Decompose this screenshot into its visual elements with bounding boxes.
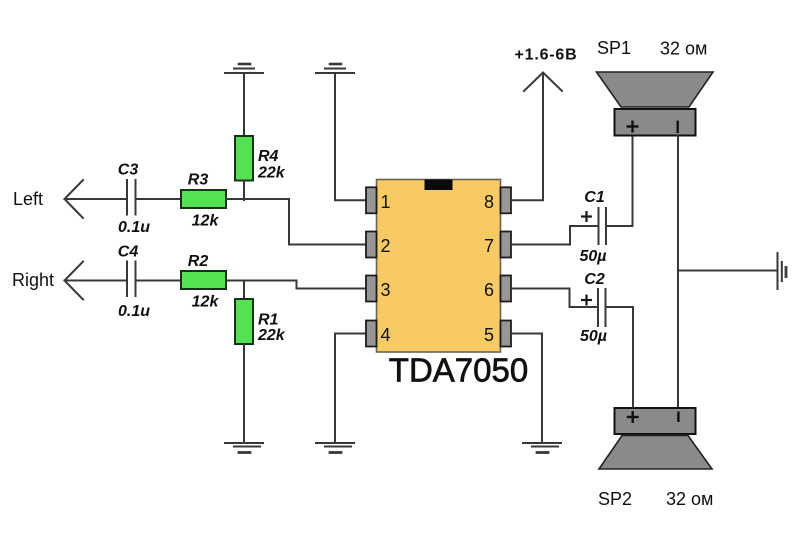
wire ground to R4 bbox=[243, 74, 245, 136]
svg-text:32 ом: 32 ом bbox=[666, 489, 713, 509]
ground right (sideways) bbox=[778, 253, 787, 289]
svg-text:R1: R1 bbox=[258, 312, 279, 329]
wire top-middle ground to pin 1 bbox=[335, 74, 366, 200]
wire Right line junction to R1 bbox=[243, 281, 245, 300]
svg-text:50µ: 50µ bbox=[580, 328, 607, 345]
svg-text:4: 4 bbox=[381, 325, 391, 345]
node Right input connector arrow bbox=[65, 262, 84, 300]
svg-text:12k: 12k bbox=[192, 213, 220, 230]
svg-text:C3: C3 bbox=[118, 162, 139, 179]
pin 1 pad bbox=[366, 187, 377, 213]
capacitor C4 bbox=[127, 262, 136, 297]
svg-text:22k: 22k bbox=[257, 165, 286, 182]
ground top-middle bbox=[316, 64, 354, 73]
SP2 plus terminal mark bbox=[627, 411, 639, 423]
pin 5 pad bbox=[501, 321, 512, 347]
polarity + (C2) bbox=[581, 295, 592, 306]
ground bottom-left (R1) bbox=[225, 443, 263, 453]
svg-text:+1.6-6В: +1.6-6В bbox=[515, 47, 578, 64]
speaker SP2 magnet bbox=[615, 408, 696, 434]
wire pin 6 to C2 bbox=[511, 289, 597, 308]
wire C3 to R3 bbox=[136, 198, 181, 200]
wire Left input to C3 bbox=[65, 198, 127, 200]
pin 6 pad bbox=[501, 276, 512, 302]
svg-text:8: 8 bbox=[484, 192, 494, 212]
pin 4 pad bbox=[366, 321, 377, 347]
speaker SP1 cone bbox=[597, 72, 714, 107]
IC notch mark bbox=[425, 180, 453, 191]
speaker SP2 cone bbox=[599, 436, 712, 470]
resistor R4 bbox=[235, 136, 253, 181]
node Left input connector arrow bbox=[65, 180, 84, 218]
wire pin 7 to C1 bbox=[511, 226, 598, 245]
svg-text:C1: C1 bbox=[584, 189, 605, 206]
wire SP1 minus to SP2 minus (shared) bbox=[677, 136, 679, 408]
svg-text:R2: R2 bbox=[188, 253, 209, 270]
svg-text:TDA7050: TDA7050 bbox=[389, 352, 528, 389]
supply arrow head bbox=[524, 73, 562, 92]
svg-text:2: 2 bbox=[381, 236, 391, 256]
polarity + (C1) bbox=[581, 211, 592, 222]
svg-text:22k: 22k bbox=[257, 327, 286, 344]
svg-text:C2: C2 bbox=[584, 271, 605, 288]
resistor R2 bbox=[181, 271, 226, 289]
svg-text:SP1: SP1 bbox=[597, 38, 631, 58]
SP2 minus terminal mark bbox=[677, 412, 679, 423]
wire pin 8 to supply arrow bbox=[511, 73, 543, 200]
capacitor C2 bbox=[598, 289, 606, 326]
svg-text:Right: Right bbox=[12, 270, 54, 290]
wire minus node to right ground bbox=[678, 270, 777, 272]
svg-text:R3: R3 bbox=[188, 172, 209, 189]
wire C1 to SP1 plus terminal bbox=[607, 136, 633, 226]
svg-text:50µ: 50µ bbox=[579, 248, 606, 265]
resistor R3 bbox=[181, 190, 226, 208]
wire pin 4 to bottom ground bbox=[335, 334, 366, 443]
wire pin 5 to bottom ground bbox=[511, 334, 542, 443]
SP1 minus terminal mark bbox=[677, 121, 679, 134]
capacitor C3 bbox=[127, 180, 136, 215]
svg-text:3: 3 bbox=[381, 280, 391, 300]
wire Right input to C4 bbox=[65, 280, 127, 282]
svg-text:0.1u: 0.1u bbox=[118, 219, 150, 236]
ground bottom-middle (pin 4) bbox=[316, 443, 354, 453]
speaker SP1 magnet bbox=[615, 109, 696, 136]
svg-text:C4: C4 bbox=[118, 244, 139, 261]
ground top-left bbox=[225, 64, 263, 73]
pin 8 pad bbox=[501, 187, 512, 213]
ground bottom-right (pin 5) bbox=[523, 443, 561, 453]
svg-text:6: 6 bbox=[484, 280, 494, 300]
pin 2 pad bbox=[366, 232, 377, 258]
svg-text:Left: Left bbox=[13, 189, 43, 209]
wire R2 to corner, down to pin 3 bbox=[226, 281, 366, 289]
wire C2 to SP2 plus terminal bbox=[606, 307, 633, 408]
IC U1 TDA7050 body bbox=[377, 180, 501, 353]
wire C4 to R2 bbox=[136, 280, 181, 282]
resistor R1 bbox=[235, 299, 253, 344]
pin 7 pad bbox=[501, 232, 512, 258]
svg-text:1: 1 bbox=[381, 192, 391, 212]
svg-text:12k: 12k bbox=[192, 294, 220, 311]
wire R4 to Left line junction bbox=[243, 181, 245, 201]
capacitor C1 bbox=[599, 208, 607, 244]
pin 3 pad bbox=[366, 276, 377, 302]
svg-text:32 ом: 32 ом bbox=[660, 39, 707, 59]
wire R3 to corner, down to pin 2 bbox=[226, 199, 366, 245]
svg-text:SP2: SP2 bbox=[598, 489, 632, 509]
wire R1 to bottom ground bbox=[243, 344, 245, 442]
SP1 plus terminal mark bbox=[627, 121, 639, 133]
svg-text:5: 5 bbox=[484, 325, 494, 345]
svg-text:7: 7 bbox=[484, 236, 494, 256]
svg-text:0.1u: 0.1u bbox=[118, 303, 150, 320]
svg-text:R4: R4 bbox=[258, 148, 279, 165]
